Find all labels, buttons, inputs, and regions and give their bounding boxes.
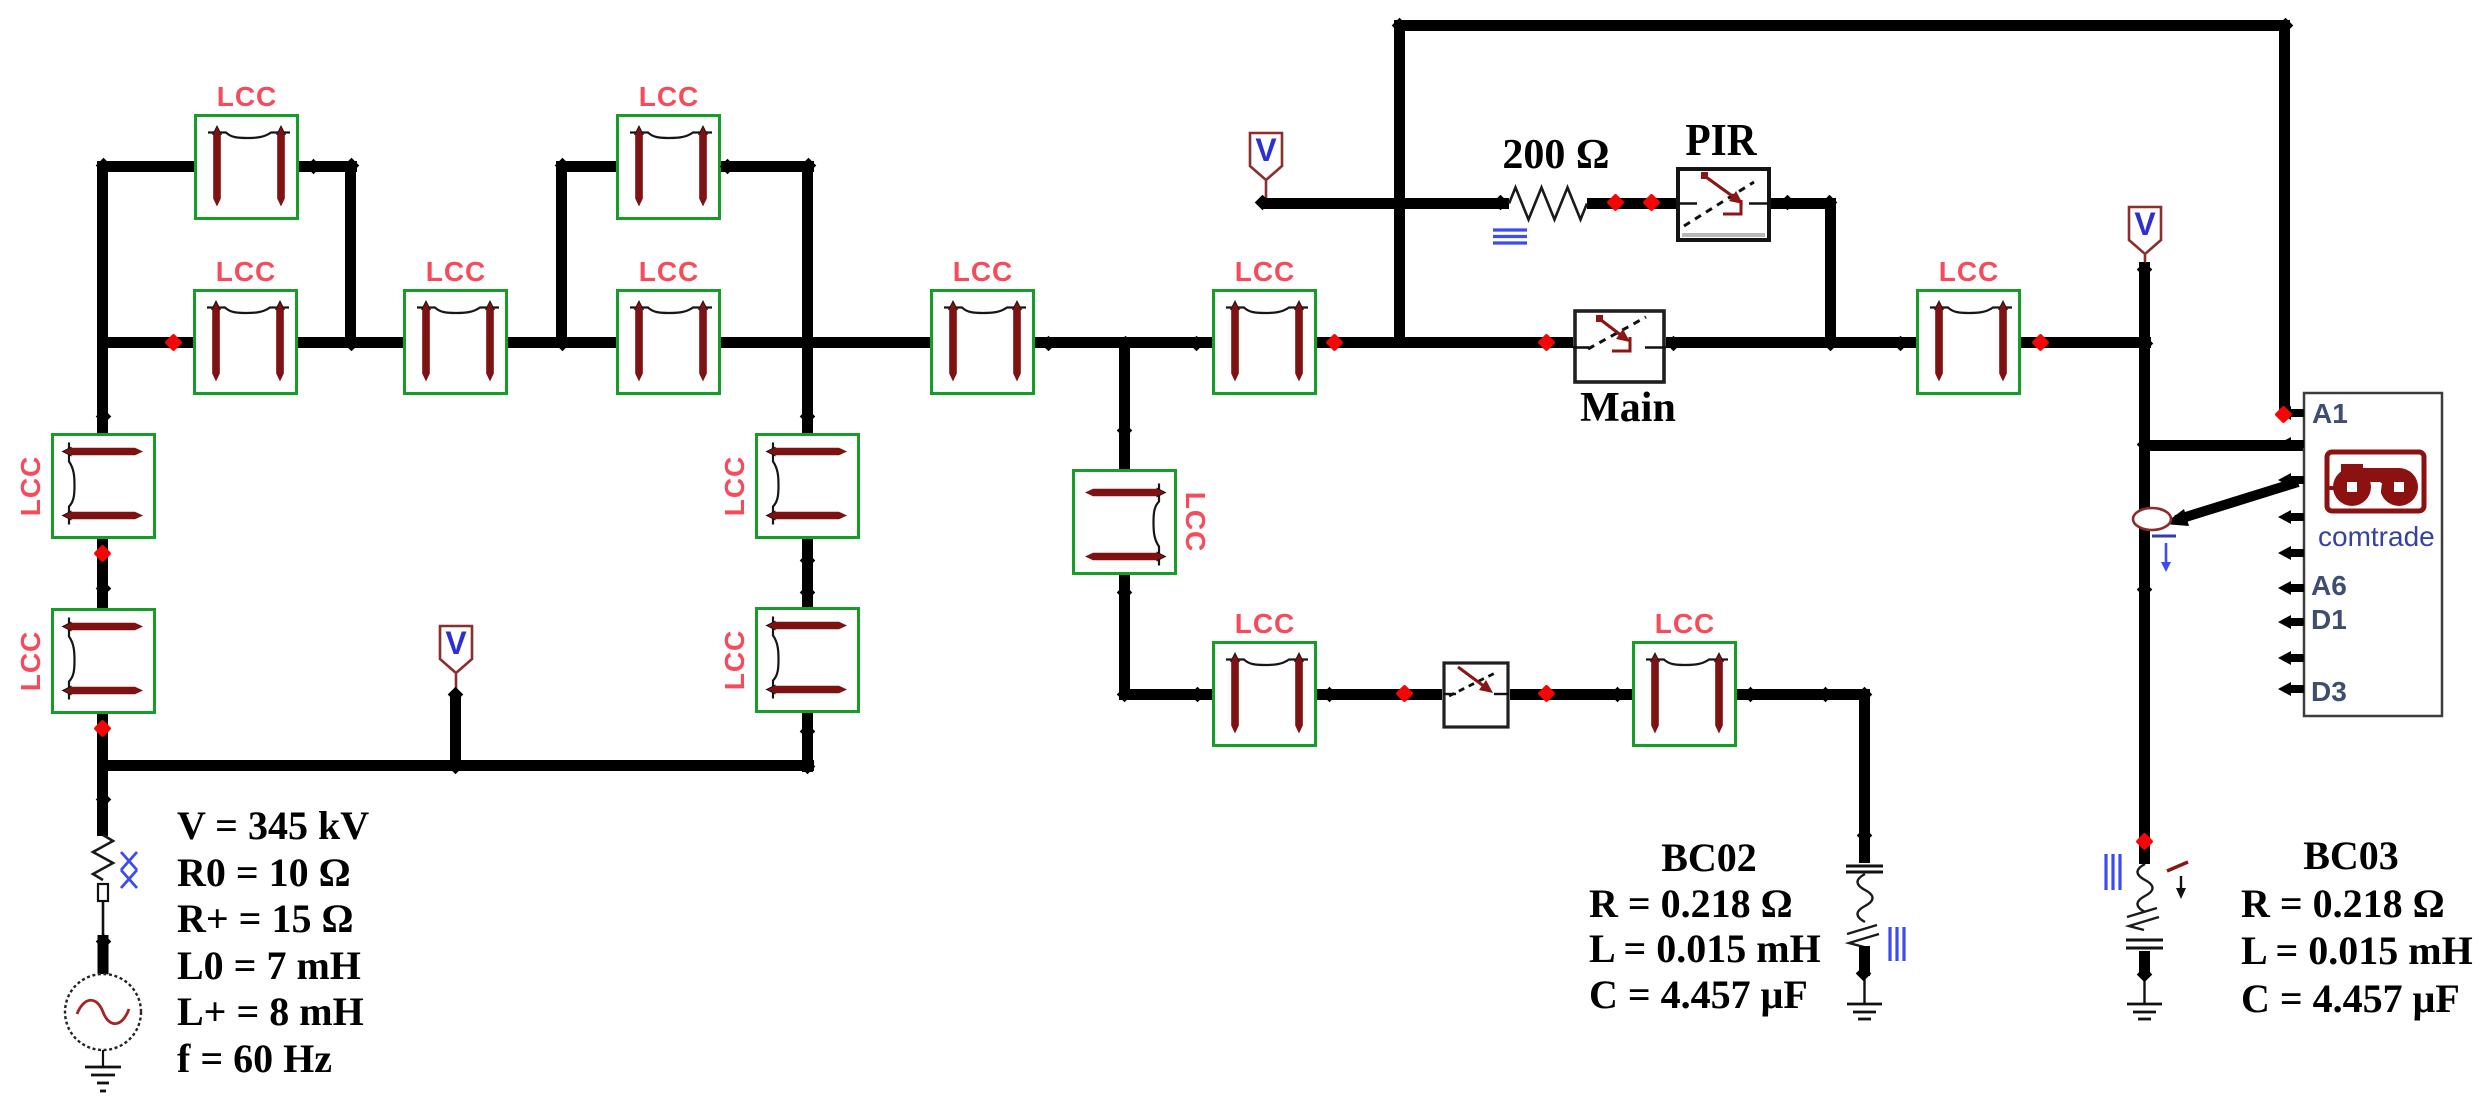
current probe tick BC03 (2167, 862, 2188, 871)
current arrow BC03 (2176, 876, 2186, 899)
wire PIR row box to corner (1771, 198, 1836, 209)
LCC line block L2 (193, 289, 298, 395)
wire BC02 riser (1859, 689, 1870, 863)
comtrade input stub 5 (2278, 546, 2304, 560)
node bump top bus corner right (2278, 18, 2294, 34)
voltage probe V2 (2129, 206, 2161, 266)
node bump middle column below LCC (800, 724, 816, 740)
current direction mark blue (2152, 536, 2176, 572)
wire bus2 segment A (98, 337, 193, 348)
BC03 upper stub (2139, 842, 2150, 864)
node bump left column above LCC (96, 409, 112, 425)
inductor coil BC03 (2127, 864, 2159, 930)
LCC line block L13 vertical (755, 433, 860, 539)
three-phase mark blue at resistor (1493, 230, 1527, 243)
svg-text:V: V (2134, 206, 2156, 242)
red node dot bus2 after L8 (2031, 333, 2049, 351)
voltage probe V3 (440, 625, 472, 690)
wire PIR row resistor to box (1587, 198, 1676, 209)
LCC line block L6 (930, 289, 1035, 395)
wire lower bus A (1119, 689, 1212, 700)
AC source circle (65, 974, 141, 1050)
three-phase mark blue BC02 (1890, 927, 1904, 961)
wire vertical x1830 PIR to bus2 (1825, 198, 1836, 348)
node bump comtrade wire junction (2137, 437, 2153, 453)
node bump row1 corner x808 (801, 158, 817, 174)
comtrade input stub 4 (2278, 510, 2304, 524)
label PIR (1631, 117, 1811, 163)
red node dot bus2 after L7 (1325, 333, 1343, 351)
red node dot PIR row a (1606, 193, 1624, 211)
node bump probe V3 stem arrow (448, 687, 464, 703)
BC03 parameter text (2241, 832, 2473, 1022)
node bump lower bus after L9 (1322, 687, 1338, 703)
wire row1 right horizontal b (719, 161, 814, 172)
node bump lower bus before L10 (1610, 687, 1626, 703)
node bump bus2 T x351 (344, 336, 360, 352)
comtrade input stub 9 (2278, 682, 2304, 696)
node bump probe V1 wire arrow (1255, 195, 1271, 211)
node bump bus2 T x1830 (1823, 336, 1839, 352)
wire vertical x562 row1 to bus (556, 161, 567, 348)
node bump lower bus corner x1125 (1117, 687, 1133, 703)
CT oval (2133, 508, 2171, 530)
node bump after LCC L4 (720, 159, 736, 175)
node bump BC02 above ground (1856, 966, 1872, 982)
wire vertical left bus riser x103 (97, 161, 108, 348)
wire row1 left horizontal a (98, 161, 194, 172)
switch PIR box (1676, 169, 1771, 240)
red node dot lower bus after switch (1537, 684, 1555, 702)
wire top bus (1394, 20, 2290, 31)
BC02 lower stub (1859, 946, 1870, 1004)
node bump middle column between LCCs b (800, 585, 816, 601)
LCC line block L7 (1212, 289, 1317, 395)
wire left column below LCC to bottom bus (97, 711, 108, 772)
node bump bottom bus T x456 (448, 759, 464, 775)
node bump midright column below LCC (1117, 585, 1133, 601)
cassette icon (2325, 452, 2424, 511)
inductor coil BC02 (1847, 874, 1879, 947)
wire vertical x2285 top bus to comtrade A1 (2279, 20, 2290, 410)
node bump left column above source (96, 934, 112, 950)
red node dot bus2 before Main (1537, 333, 1555, 351)
node bump probe V2 stem (2137, 262, 2153, 278)
capacitor BC02 (1846, 866, 1883, 872)
wire bus2 segment E (1035, 337, 1212, 348)
wire bottom bus left (98, 760, 814, 771)
wire comtrade A1 horizontal (2139, 440, 2304, 451)
wire middle column between LCCs (802, 537, 813, 608)
wire bus2 segment G (1666, 337, 1916, 348)
red node dot left column upper (93, 544, 111, 562)
node bump bus2 T x562 (555, 336, 571, 352)
LCC line block L3 (403, 289, 508, 395)
LCC line block L10 (1632, 641, 1737, 747)
node bump bus2 cross x808 (801, 336, 817, 352)
node bump lower bus after L10 (1743, 687, 1759, 703)
capacitor BC03 (2126, 940, 2163, 948)
BC03 lower stub (2139, 951, 2150, 1004)
red node dot BC03 top (2135, 832, 2153, 850)
comtrade title text (2318, 521, 2435, 553)
ground BC03 (2127, 1004, 2162, 1019)
comtrade pin label A1 (2312, 398, 2348, 430)
node bump bottom bus corner x808 (800, 759, 816, 775)
BC02 parameter text (1589, 835, 1829, 1017)
comtrade recorder box (2304, 393, 2442, 716)
three-phase mark blue BC03 (2106, 854, 2120, 890)
wire bus2 segment C (508, 337, 616, 348)
resistor R 200 ohm zigzag (1509, 188, 1587, 220)
node bump midright column above LCC (1117, 423, 1133, 439)
wire probe V3 stem riser (450, 692, 461, 771)
wire left column between LCCs (97, 536, 108, 609)
node bump bus2 after L6 (1041, 336, 1057, 352)
node bump BC02 corner (1857, 687, 1873, 703)
red node dot PIR row b (1642, 193, 1660, 211)
node bump BC02 column (1857, 828, 1873, 844)
wire midright column bus to LCC (1119, 348, 1130, 469)
wire lower bus C (1510, 689, 1632, 700)
node bump after LCC L1 (306, 159, 322, 175)
node bump row1 corner left (96, 158, 112, 174)
node bump bus2 T x1125 (1118, 336, 1134, 352)
LCC line block L12 vertical (51, 608, 156, 714)
LCC line block L5 (616, 289, 721, 395)
wire row1 right horizontal a (556, 161, 616, 172)
red node dot lower bus before switch (1395, 684, 1413, 702)
label Main (1528, 387, 1728, 429)
source nonlinear XX mark blue (121, 852, 137, 888)
node bump left column below bus (96, 792, 112, 808)
ground under source (85, 1050, 121, 1091)
LCC line block L8 (1916, 289, 2021, 395)
wire vertical x351 row1 to bus (345, 161, 356, 348)
comtrade input stub 3 (2278, 473, 2304, 487)
node bump BC03 above ground (2137, 967, 2153, 983)
wire bus2 segment F (1316, 337, 1573, 348)
wire probe V2 riser / BC03 column (2139, 262, 2150, 842)
node bump left column between LCCs (96, 581, 112, 597)
wire midright column LCC to lower bus (1119, 570, 1130, 700)
comtrade CT diagonal wire (2164, 482, 2298, 526)
wire left column bus to source resistor (97, 766, 108, 836)
wire lower bus D (1737, 689, 1870, 700)
wire middle column below LCC to bottom bus (802, 712, 813, 772)
ground BC02 (1847, 1004, 1882, 1019)
node bump lower bus before L9 (1190, 687, 1206, 703)
wire lower bus B (1316, 689, 1442, 700)
switch Main box (1573, 311, 1666, 382)
comtrade pin label A6 (2311, 570, 2347, 602)
node bump bus2 junction x2145 (2138, 336, 2154, 352)
node bump lower bus before BC02 corner (1818, 687, 1834, 703)
comtrade pin label D1 (2311, 604, 2347, 636)
comtrade input stub 7 (2278, 615, 2304, 629)
red node dot bus2 left (164, 333, 182, 351)
comtrade input stub 2 (2278, 437, 2304, 451)
comtrade input stub 8 (2278, 651, 2304, 665)
node bump PIR row before resistor (1493, 195, 1509, 211)
LCC line block L4 (616, 114, 721, 220)
wire vertical x1400 top bus to bus2 (1394, 20, 1405, 348)
wire bus2 segment B (298, 337, 403, 348)
comtrade pin label D3 (2311, 676, 2347, 708)
red node dot comtrade A1 (2274, 405, 2292, 423)
comtrade input stub A1 (2278, 406, 2304, 420)
node bump middle column between LCCs a (800, 553, 816, 569)
LCC line block L11 vertical (51, 433, 156, 539)
node bump bus2 before L7 (1189, 336, 1205, 352)
label 200 ohm (1456, 134, 1656, 176)
node bump row1 corner x562 (555, 158, 571, 174)
node bump row1 corner x351 (344, 158, 360, 174)
LCC line block L9 (1212, 641, 1317, 747)
node bump BC03 column node (2137, 582, 2153, 598)
node bump top bus corner left (1392, 18, 1408, 34)
voltage probe V1 (1250, 132, 1282, 198)
switch lower box (1443, 663, 1509, 727)
wire bus2 segment D (721, 337, 930, 348)
LCC line block L14 vertical (755, 607, 860, 713)
comtrade input stub 6 (2278, 581, 2304, 595)
wire PIR row left (1262, 198, 1509, 209)
wire left column bus to LCC (97, 348, 108, 433)
node bump bus2 before L8 (1893, 336, 1909, 352)
node bump PIR row after box (1780, 195, 1796, 211)
svg-text:V: V (1255, 132, 1277, 168)
wire vertical x808 row1 through bus to LCC column (802, 161, 813, 434)
source inductor box (98, 884, 109, 976)
LCC line block L1 (194, 114, 299, 220)
svg-text:V: V (445, 625, 467, 661)
source resistor zigzag (93, 835, 113, 880)
source parameter text (177, 803, 369, 1082)
wire row1 left horizontal b (298, 161, 357, 172)
LCC line block L15 vertical right (1072, 469, 1177, 575)
wire bus2 segment H (2021, 337, 2151, 348)
node bump PIR corner x1830 (1822, 195, 1838, 211)
node bump middle column above LCC (800, 409, 816, 425)
node bump bus2 after Main (1666, 336, 1682, 352)
red node dot left column lower (93, 719, 111, 737)
